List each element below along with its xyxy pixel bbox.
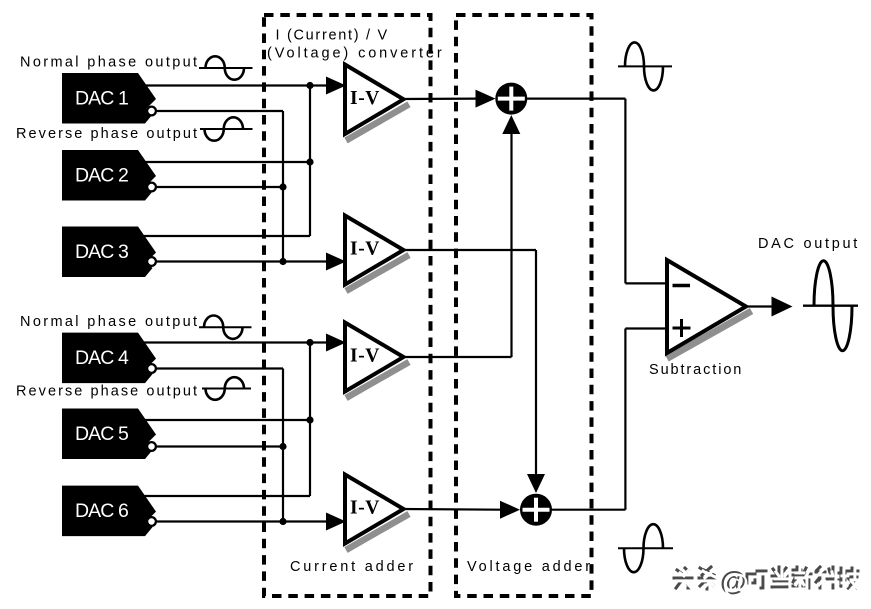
svg-text:I-V: I-V	[350, 88, 380, 109]
svg-text:DAC output: DAC output	[758, 236, 860, 252]
wire: A1 output	[527, 97, 625, 99]
watermark: 头条@叮当新科技 (embossed)	[674, 567, 858, 589]
wire: current-adder vertical bus (normal, bottom group)	[309, 343, 311, 497]
waveform: reverse phase sine (top)	[200, 117, 253, 140]
svg-text:DAC 5: DAC 5	[75, 423, 129, 445]
summing node A2 (voltage adder bottom)	[520, 494, 552, 526]
wire: into U5 non-inverting input	[625, 327, 667, 329]
wire: U2 output down to adder A2	[535, 250, 537, 475]
wire: U3 output up to adder A1	[510, 134, 512, 357]
DAC 5 block	[62, 409, 156, 460]
wire: DAC6 normal output	[144, 495, 310, 497]
svg-text:I-V: I-V	[350, 239, 380, 260]
wire: current-adder vertical bus (reverse, bottom group)	[282, 369, 284, 522]
wire: A2 output	[552, 509, 625, 511]
wire: current-adder vertical bus (reverse, top group)	[282, 111, 284, 262]
svg-text:I (Current) / V: I (Current) / V	[276, 28, 389, 44]
DAC 1 block	[62, 73, 156, 124]
dashed box: voltage adder stage	[456, 15, 592, 596]
wire: DAC3 normal output	[144, 235, 310, 237]
DAC 2 block	[62, 150, 156, 201]
label: I (Current) / V (Voltage) converter	[267, 28, 445, 62]
dashed box: I-V converter / current adder stage	[264, 15, 431, 596]
svg-text:Reverse phase output: Reverse phase output	[16, 126, 199, 142]
arrowhead into U4	[326, 513, 346, 531]
svg-text:Voltage adder: Voltage adder	[467, 559, 593, 575]
arrowhead into U1	[326, 77, 346, 95]
summing node A1 (voltage adder top)	[495, 83, 527, 115]
waveform: adder A2 output sine	[618, 524, 673, 572]
waveform: normal phase sine (top)	[199, 56, 253, 79]
wire: U4 output to voltage adder A2	[402, 508, 501, 511]
wire: U3 output	[402, 356, 512, 358]
svg-text:DAC 3: DAC 3	[75, 241, 128, 263]
waveform: DAC output sine	[803, 261, 858, 351]
svg-text:DAC 1: DAC 1	[75, 88, 128, 110]
arrowhead into adder A1 bottom	[502, 115, 520, 134]
junction: DAC4 normal / bus	[306, 339, 313, 346]
DAC 6 block	[62, 486, 156, 536]
svg-text:DAC 4: DAC 4	[75, 347, 129, 369]
waveform: reverse phase sine (bottom)	[202, 377, 251, 400]
op-amp U2 (I-V converter)	[345, 216, 409, 292]
wire: DAC4 normal output to current-adder node	[144, 341, 327, 343]
svg-text:I-V: I-V	[350, 498, 380, 519]
junction: DAC2 reverse / bus	[279, 183, 286, 190]
arrowhead into adder A1	[476, 90, 496, 108]
op-amp U1 (I-V converter)	[345, 65, 409, 141]
wire: DAC5 normal output	[144, 419, 310, 421]
svg-text:Reverse phase output: Reverse phase output	[16, 384, 199, 400]
wire: into U5 inverting input	[625, 282, 667, 284]
arrowhead into adder A2 top	[527, 474, 545, 493]
svg-text:DAC 6: DAC 6	[75, 500, 128, 522]
wire: current-adder vertical bus (normal, top group)	[309, 86, 311, 237]
op-amp U4 (I-V converter)	[345, 475, 409, 551]
arrowhead: DAC output	[772, 297, 793, 317]
wire: U5 output	[746, 305, 773, 307]
junction: DAC5 reverse / bus	[279, 443, 286, 450]
DAC 1 inverted-output bubble	[147, 107, 156, 116]
wire: DAC5 reverse output	[157, 445, 283, 447]
arrowhead into U2	[326, 253, 346, 271]
DAC 4 inverted-output bubble	[147, 364, 156, 373]
wire: DAC1 normal output to current-adder node	[144, 84, 327, 86]
DAC 5 inverted-output bubble	[147, 442, 156, 451]
junction: DAC1 normal / bus	[306, 82, 313, 89]
svg-text:@: @	[723, 569, 749, 599]
wire: DAC3 reverse output to U2	[157, 260, 327, 262]
DAC 6 inverted-output bubble	[147, 517, 156, 526]
junction: DAC2 normal / bus	[306, 158, 313, 165]
junction: DAC6 reverse / bus	[279, 518, 286, 525]
wire: DAC2 reverse output	[157, 186, 283, 188]
DAC 3 inverted-output bubble	[147, 257, 156, 266]
wire: DAC2 normal output	[144, 161, 310, 163]
arrowhead into U3	[326, 334, 346, 352]
svg-text:DAC 2: DAC 2	[75, 165, 128, 187]
wire: DAC6 reverse output to U4	[157, 520, 327, 522]
wire: A2 output up to subtractor plus input	[624, 329, 626, 510]
wire: DAC4 reverse output	[157, 367, 283, 369]
op-amp U5 (Subtraction)	[667, 260, 752, 359]
svg-text:I-V: I-V	[350, 346, 380, 367]
svg-text:Normal phase output: Normal phase output	[20, 55, 199, 71]
wire: U1 output to voltage adder A1	[402, 97, 477, 100]
wire: U2 output	[402, 249, 536, 251]
waveform: adder A1 output sine	[618, 42, 672, 90]
svg-text:Current adder: Current adder	[290, 559, 416, 575]
svg-text:(Voltage) converter: (Voltage) converter	[267, 46, 445, 62]
junction: DAC5 normal / bus	[306, 416, 313, 423]
waveform: normal phase sine (bottom)	[199, 316, 252, 339]
junction: DAC3 reverse / bus	[279, 258, 286, 265]
svg-text:Subtraction: Subtraction	[649, 362, 743, 378]
op-amp U3 (I-V converter)	[345, 323, 409, 399]
arrowhead into adder A2	[500, 501, 520, 519]
wire: A1 output down to subtractor minus input	[624, 99, 626, 284]
DAC 4 block	[62, 333, 156, 384]
wire: DAC1 reverse output	[157, 110, 283, 112]
DAC 2 inverted-output bubble	[147, 183, 156, 192]
DAC 3 block	[62, 227, 156, 278]
svg-text:Normal phase output: Normal phase output	[20, 314, 199, 330]
